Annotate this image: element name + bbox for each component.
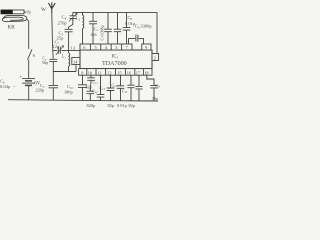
capacitor pin4 (104, 12, 112, 44)
svg-text:N: N (27, 10, 31, 16)
svg-text:−: − (13, 85, 16, 90)
svg-text:TDA7000: TDA7000 (102, 61, 127, 67)
svg-text:KR: KR (8, 25, 16, 31)
wire battery to ground rail (28, 85, 30, 99)
top rail (73, 11, 157, 13)
svg-text:56p: 56p (42, 60, 48, 65)
capacitor C8 0.01u pin7 (123, 12, 131, 44)
svg-text:180p: 180p (64, 90, 73, 95)
tuning capacitor C7 12p (53, 47, 80, 54)
svg-text:82p: 82p (86, 85, 92, 90)
capacitor C11 82p pin10 (87, 75, 95, 91)
svg-text:11: 11 (98, 70, 102, 75)
svg-text:C9 3300p: C9 3300p (135, 24, 152, 30)
pin 14 box (72, 58, 80, 65)
pin strip bottom boxes 8 10 11 12 15 16 17 18 (79, 69, 152, 76)
capacitor pin17 (135, 75, 142, 101)
capacitor C3 220p (49, 72, 58, 101)
earphone N bobbin box (13, 10, 25, 14)
wire antenna down lead (52, 13, 53, 59)
capacitor C12 820p (87, 91, 95, 100)
svg-text:S: S (33, 53, 36, 58)
svg-text:W: W (41, 7, 46, 13)
antenna W (48, 2, 55, 13)
wire to pin 14 (75, 65, 77, 72)
capacitor C10 180p pin8 (78, 75, 87, 100)
pin 9 box (142, 44, 151, 50)
capacitor C1 56p antenna coupling (49, 59, 57, 71)
svg-text:12p: 12p (53, 44, 61, 49)
capacitor C4 trimmer 270p (69, 12, 77, 27)
wire switch to battery (28, 60, 30, 79)
svg-text:2: 2 (154, 56, 156, 61)
capacitor C14 pin12 (107, 75, 115, 100)
capacitor C1 pin5 (89, 12, 97, 44)
switch S (28, 49, 32, 59)
capacitor C5 25p (65, 27, 73, 51)
pin 2 box (152, 54, 159, 61)
svg-text:L2: L2 (76, 16, 81, 22)
svg-text:+: + (19, 74, 22, 80)
svg-text:56p: 56p (152, 96, 158, 101)
inductor L1 (69, 51, 70, 72)
svg-text:82p: 82p (108, 103, 114, 108)
wire tank bottom (53, 71, 76, 73)
ground rail (8, 100, 158, 101)
svg-text:12: 12 (107, 70, 111, 75)
svg-text:820p: 820p (87, 103, 96, 108)
wire bar to N (24, 11, 27, 13)
svg-text:C4: C4 (62, 15, 67, 21)
earphone KR coil cord (2, 15, 26, 21)
svg-text:220p: 220p (36, 87, 45, 92)
capacitor C13 pin11 (97, 75, 105, 100)
op IC1 TDA7000 body (80, 50, 152, 69)
svg-text:L1: L1 (62, 54, 67, 60)
capacitor pin3 (114, 12, 122, 44)
inductor L2 (83, 12, 84, 44)
svg-text:C8: C8 (128, 15, 133, 21)
capacitor C9 3300p bridge pins 7-9 (129, 35, 144, 44)
wire rail down to pin 2 (156, 12, 158, 53)
svg-text:C·0.068µ: C·0.068µ (100, 25, 105, 41)
svg-text:82p: 82p (129, 103, 135, 108)
svg-text:3n3: 3n3 (91, 32, 97, 37)
battery GB 6V (22, 79, 35, 86)
svg-text:25p: 25p (57, 36, 65, 41)
svg-text:0.04µ: 0.04µ (0, 84, 11, 89)
wire KR coil to switch lead (27, 20, 29, 50)
earphone N ferrite bar (1, 10, 13, 14)
pin strip top boxes 6 5 4 3 7 (80, 44, 132, 50)
capacitor pin16 (127, 75, 134, 101)
capacitor C16 56p pin18 (147, 75, 158, 101)
svg-text:0.01µ: 0.01µ (117, 103, 128, 108)
capacitor C15 pin15 (117, 75, 125, 101)
svg-text:270p: 270p (58, 21, 68, 26)
